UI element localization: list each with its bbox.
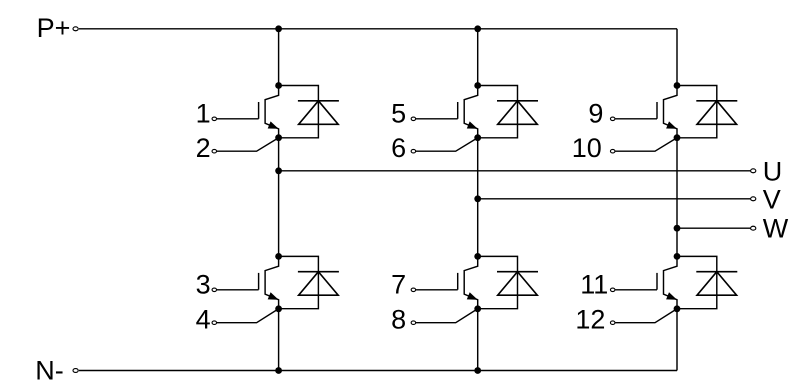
wire: pin 3 to Q2 gate xyxy=(217,289,259,291)
wire: pin 11 to Q6 gate xyxy=(615,289,657,291)
svg-text:U: U xyxy=(763,156,783,186)
transistor Q1 (high-side IGBT, phase U) xyxy=(259,86,279,138)
wire: DC+ rail to Q5 collector (phase W high-side) xyxy=(676,29,678,86)
node: Q2 collector xyxy=(275,253,282,260)
pin 7 terminal (gate of Q4) xyxy=(411,288,416,292)
diode D6 (freewheel diode across Q6) xyxy=(677,256,737,308)
diode D1 (freewheel diode across Q1) xyxy=(279,86,339,138)
node: Q4 collector xyxy=(474,253,481,260)
transistor Q2 (low-side IGBT, phase U) xyxy=(259,256,279,308)
node: Q3 collector xyxy=(474,82,481,89)
svg-text:1: 1 xyxy=(196,99,211,129)
junction: P+ rail / phase V leg xyxy=(474,25,481,32)
wire: pin 10 to Q5 emitter xyxy=(615,138,677,152)
pin 12 terminal (aux emitter of Q6) xyxy=(610,321,615,325)
svg-text:5: 5 xyxy=(391,99,406,129)
wire: phase output W xyxy=(677,227,750,229)
svg-text:3: 3 xyxy=(196,270,211,300)
node N- terminal xyxy=(73,369,78,373)
wire: pin 2 to Q1 emitter xyxy=(217,138,279,152)
node: Q5 collector xyxy=(674,82,681,89)
svg-text:10: 10 xyxy=(572,133,602,163)
junction: phase U output tap xyxy=(275,167,282,174)
pin 8 terminal (aux emitter of Q4) xyxy=(411,321,416,325)
svg-text:P+: P+ xyxy=(37,13,71,43)
svg-text:4: 4 xyxy=(196,305,211,335)
node: Q2 emitter xyxy=(275,305,282,312)
svg-text:11: 11 xyxy=(580,270,608,300)
node U terminal xyxy=(751,169,756,173)
wire: Q2 emitter to DC- rail xyxy=(278,309,280,371)
wire: phase output V xyxy=(478,198,751,200)
svg-text:6: 6 xyxy=(391,133,406,163)
pin 3 terminal (gate of Q2) xyxy=(212,288,217,292)
diode D3 (freewheel diode across Q3) xyxy=(478,86,538,138)
pin 2 terminal (aux emitter of Q1) xyxy=(212,149,217,153)
node: Q4 emitter xyxy=(474,305,481,312)
pin 6 terminal (aux emitter of Q3) xyxy=(411,149,416,153)
diode D2 (freewheel diode across Q2) xyxy=(279,256,339,308)
diode D5 (freewheel diode across Q5) xyxy=(677,86,737,138)
node: Q1 emitter / phase U output xyxy=(275,134,282,141)
wire: Q6 emitter to DC- rail xyxy=(676,309,678,371)
junction: N- rail / phase U leg xyxy=(275,367,282,374)
wire: pin 6 to Q3 emitter xyxy=(416,138,478,152)
wire: pin 9 to Q5 gate xyxy=(615,118,657,120)
svg-text:N-: N- xyxy=(35,356,64,385)
pin 11 terminal (gate of Q6) xyxy=(610,288,615,292)
node: Q1 collector xyxy=(275,82,282,89)
wire: phase U midpoint down to Q2 collector xyxy=(278,138,280,257)
transistor Q3 (high-side IGBT, phase V) xyxy=(458,86,478,138)
svg-text:W: W xyxy=(763,214,789,244)
pin 10 terminal (aux emitter of Q5) xyxy=(610,149,615,153)
node P+ terminal xyxy=(73,27,78,31)
wire: phase output U xyxy=(279,170,751,172)
junction: phase W output tap xyxy=(674,225,681,232)
node: Q6 emitter xyxy=(674,305,681,312)
transistor Q5 (high-side IGBT, phase W) xyxy=(657,86,677,138)
pin 4 terminal (aux emitter of Q2) xyxy=(212,321,217,325)
pin 5 terminal (gate of Q3) xyxy=(411,117,416,121)
wire: DC+ rail to Q1 collector (phase U high-side) xyxy=(278,29,280,86)
wire: phase V midpoint down to Q4 collector xyxy=(477,138,479,257)
wire: P+ rail (DC+ bus) xyxy=(79,28,677,30)
svg-text:8: 8 xyxy=(391,305,406,335)
wire: Q4 emitter to DC- rail xyxy=(477,309,479,371)
wire: phase W midpoint down to Q6 collector xyxy=(676,138,678,257)
svg-text:12: 12 xyxy=(575,305,605,335)
svg-text:V: V xyxy=(763,184,781,214)
wire: pin 8 to Q4 emitter xyxy=(416,309,478,323)
diode D4 (freewheel diode across Q4) xyxy=(478,256,538,308)
junction: phase V output tap xyxy=(474,195,481,202)
wire: pin 7 to Q4 gate xyxy=(416,289,458,291)
node: Q6 collector xyxy=(674,253,681,260)
junction: N- rail / phase V leg xyxy=(474,367,481,374)
wire: pin 4 to Q2 emitter xyxy=(217,309,279,323)
svg-text:7: 7 xyxy=(391,270,406,300)
transistor Q4 (low-side IGBT, phase V) xyxy=(458,256,478,308)
wire: pin 5 to Q3 gate xyxy=(416,118,458,120)
node W terminal xyxy=(751,226,756,230)
node V terminal xyxy=(751,197,756,201)
wire: pin 12 to Q6 emitter xyxy=(615,309,677,323)
node: Q3 emitter / phase V output xyxy=(474,134,481,141)
node: Q5 emitter / phase W output xyxy=(674,134,681,141)
junction: P+ rail / phase U leg xyxy=(275,25,282,32)
wire: DC+ rail to Q3 collector (phase V high-side) xyxy=(477,29,479,86)
wire: N- rail (DC- bus) xyxy=(79,370,677,372)
svg-text:9: 9 xyxy=(588,99,603,129)
wire: pin 1 to Q1 gate xyxy=(217,118,259,120)
pin 9 terminal (gate of Q5) xyxy=(610,117,615,121)
transistor Q6 (low-side IGBT, phase W) xyxy=(657,256,677,308)
pin 1 terminal (gate of Q1) xyxy=(212,117,217,121)
svg-text:2: 2 xyxy=(196,133,211,163)
